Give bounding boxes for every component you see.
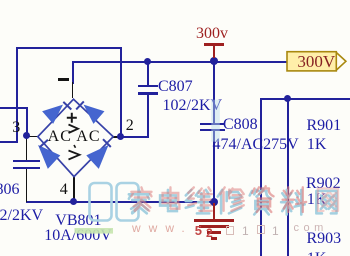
watermark url com: [294, 222, 328, 234]
wire: C808 bottom lead down to ground node: [213, 131, 215, 202]
label VB801: [55, 213, 101, 229]
node: R-chain junction: [284, 95, 291, 102]
node: pin4 junction: [70, 198, 77, 205]
pin number 2: [126, 118, 134, 134]
wire: R-chain left vertical x=261 to bottom edge: [260, 98, 262, 256]
watermark char dian cyan: [160, 190, 177, 211]
pin number 3: [12, 120, 20, 136]
ground bar 2: [199, 225, 229, 227]
node: C807 top on rail: [144, 58, 151, 65]
wire: R-chain right vertical x=287.8 to bottom edge: [287, 98, 289, 256]
label R902: [306, 176, 341, 192]
label 474/AC275V: [213, 137, 299, 153]
ground bar 4: [211, 237, 217, 239]
diode D3 lower-left: [39, 146, 60, 168]
node: ground junction: [210, 198, 218, 206]
300V flag text: [297, 53, 335, 70]
watermark book icon left page: [90, 183, 112, 221]
wire: C807 bottom lead down to pin2 branch: [147, 95, 149, 138]
diode D1 cathode bar: [63, 102, 71, 110]
watermark char wang cyan: [316, 191, 336, 213]
label 102/2KV: [163, 98, 223, 114]
pin number 4: [60, 182, 68, 198]
wire: pin2 stub to bridge right vertex (black): [112, 136, 121, 138]
node: 300v rail junction: [210, 57, 218, 65]
diode glyph mark lower: [69, 151, 80, 160]
label 2/2KV partial: [0, 208, 43, 224]
watermark char xiu cyan: [218, 190, 242, 214]
wire: outer left stub exiting left edge at y=142: [0, 141, 17, 143]
node: pin2 junction: [117, 133, 124, 140]
label C808: [223, 117, 258, 133]
diode glyph mark upper: [69, 125, 79, 134]
watermark char wang red: [318, 188, 338, 210]
wire: bridge bottom pin4 stub (black): [73, 177, 75, 201]
label C807: [158, 79, 193, 95]
wire: outer left vertical: [16, 47, 18, 143]
watermark cyan column: [211, 100, 220, 142]
wire: main 300v rail y=61.5 from bridge minus corner to flag: [72, 61, 288, 63]
diode D4 lower-right: [87, 146, 108, 168]
watermark char zi red: [252, 186, 273, 212]
watermark url www: [132, 221, 193, 235]
wire: C808 top lead from rail node: [213, 62, 215, 124]
label R901 value 1K: [307, 137, 327, 153]
watermark url digits: [206, 226, 213, 240]
watermark url 1b: [272, 224, 279, 238]
watermark url 2: [195, 223, 202, 238]
label R903 value 1K: [307, 251, 327, 256]
label C806 partial: [0, 182, 20, 198]
300V output flag arrow tip: [336, 53, 346, 71]
wire: bridge minus vertical from rail corner down toward bridge top: [72, 61, 74, 84]
300v supply label: [196, 26, 228, 42]
watermark char jia cyan: [129, 190, 149, 214]
diode D3 cathode bar: [40, 140, 48, 147]
wire: bridge top pin stub (black): [72, 82, 74, 98]
watermark char wei red: [188, 187, 212, 211]
300V output flag body: [287, 52, 336, 71]
watermark char liao cyan: [281, 190, 305, 215]
minus label at bridge top pin: [58, 78, 69, 80]
watermark url 0 box2: [257, 225, 265, 235]
tick mark: [74, 145, 76, 148]
wire: bottom return rail y=201.6: [26, 201, 215, 203]
wire: C806 bottom lead to bottom rail (black): [26, 169, 28, 202]
label R902 value 1K: [307, 192, 327, 208]
watermark char zi cyan: [250, 189, 271, 215]
ground symbol lead: [213, 203, 215, 220]
diamond outline: [38, 99, 113, 176]
label R903: [307, 231, 342, 247]
capacitor C806 plates: [13, 160, 40, 162]
watermark book icon right page: [117, 183, 139, 221]
wire: outer top horizontal from left loop to pin2 drop: [16, 47, 122, 49]
label 10A/600V: [44, 228, 112, 244]
diode D2 upper-right: [85, 106, 104, 124]
watermark url 0 box: [226, 226, 234, 235]
wire: right feed horizontal y=98.7 exiting right edge: [260, 98, 350, 100]
wire: pin3 stub to bridge left vertex (black): [27, 136, 39, 138]
watermark char liao red: [283, 187, 307, 212]
watermark char xiu red: [220, 187, 244, 211]
wire: left AC input entering at left edge y=108: [0, 107, 28, 109]
diode D4 cathode bar: [103, 139, 111, 147]
watermark url 1: [242, 224, 249, 238]
ground bar 3: [207, 231, 221, 233]
wire: pin2 vertical drop x=120.5: [120, 47, 122, 137]
AC AC label: [48, 129, 101, 145]
wire: C806 top lead from pin3 node (black): [26, 138, 28, 161]
watermark green streak: [75, 228, 114, 234]
plus mark inside bridge: [67, 113, 77, 123]
label R901: [307, 118, 342, 134]
capacitor C807 plates: [138, 85, 159, 87]
watermark char dian red: [163, 187, 180, 208]
diode D2 cathode bar: [76, 101, 84, 109]
300v supply bar: [204, 43, 225, 46]
capacitor C808 plates: [200, 123, 225, 125]
wire: C807 top lead from rail node: [147, 62, 149, 86]
wire: left AC jog down to pin3 node: [26, 107, 28, 135]
wire: pin2 to C807 branch horizontal y=136.7: [121, 136, 149, 138]
ground bar 1: [194, 219, 234, 221]
diode D1 upper-left: [43, 106, 62, 124]
watermark char wei cyan: [186, 190, 210, 214]
300v supply lead: [213, 43, 215, 58]
node: pin3 junction: [23, 132, 30, 139]
watermark char jia red: [131, 187, 151, 211]
